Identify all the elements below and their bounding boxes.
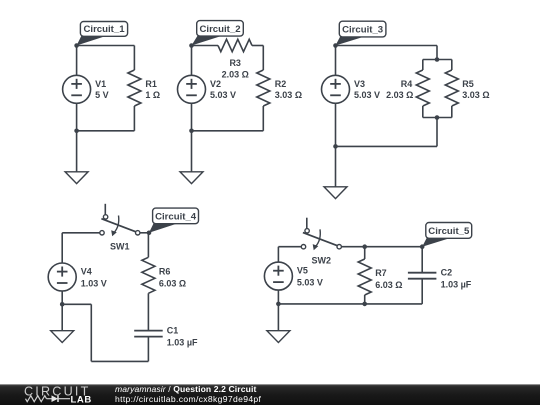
wire circuit3 V3 top stub xyxy=(335,46,337,76)
svg-text:1.03 V: 1.03 V xyxy=(81,279,107,289)
wire circuit5 bottom xyxy=(278,303,422,305)
wire circuit3 V3 bottom stub xyxy=(335,103,337,146)
wire circuit3 parallel top bar xyxy=(423,59,452,61)
resistor R3 xyxy=(218,39,252,51)
voltage source V3 xyxy=(322,75,350,103)
capacitor C1 xyxy=(134,330,163,332)
svg-text:Circuit_2: Circuit_2 xyxy=(199,24,240,35)
resistor R7 xyxy=(358,259,371,295)
svg-text:V5: V5 xyxy=(297,266,308,276)
node junction circuit3 parallel bottom xyxy=(435,115,440,120)
wire circuit3 R5 bottom stub xyxy=(451,106,453,118)
svg-text:R7: R7 xyxy=(375,268,387,278)
resistor R5 xyxy=(445,70,458,106)
svg-text:SW1: SW1 xyxy=(110,242,130,252)
resistor R2 xyxy=(257,70,270,106)
node junction circuit3 top-left xyxy=(333,43,338,48)
svg-text:2.03 Ω: 2.03 Ω xyxy=(386,90,413,100)
node junction circuit5 R7 bottom xyxy=(362,302,367,307)
svg-text:Circuit_4: Circuit_4 xyxy=(155,212,197,223)
node junction circuit5 R7 top xyxy=(362,244,367,249)
svg-text:5.03 V: 5.03 V xyxy=(354,90,380,100)
svg-text:maryamnasir / Question 2.2 Cir: maryamnasir / Question 2.2 Circuit xyxy=(115,384,256,394)
wire circuit1 bottom xyxy=(77,130,135,132)
svg-text:Circuit_3: Circuit_3 xyxy=(342,25,383,36)
wire circuit4 R6 to C1 xyxy=(147,293,149,330)
voltage source V5 xyxy=(264,262,292,290)
wire circuit5 C2 top stub xyxy=(421,247,423,273)
switch SW1 lever xyxy=(101,219,135,232)
voltage source V2 xyxy=(178,75,206,103)
switch SW1 actuation arrow xyxy=(114,216,119,234)
node label Circuit_1 xyxy=(77,35,110,46)
svg-text:V2: V2 xyxy=(210,79,221,89)
node junction circuit4 switch node xyxy=(147,231,152,236)
resistor R6 xyxy=(142,257,155,293)
node junction circuit4 below V4 xyxy=(60,302,65,307)
svg-text:6.03 Ω: 6.03 Ω xyxy=(375,280,402,290)
switch SW2 terminal stub xyxy=(306,218,308,229)
svg-text:1 Ω: 1 Ω xyxy=(145,90,160,100)
svg-text:5.03 V: 5.03 V xyxy=(210,90,236,100)
node junction circuit5 below V5 xyxy=(276,302,281,307)
capacitor C2 xyxy=(408,272,437,274)
wire circuit4 switch to left corner xyxy=(62,232,100,234)
wire circuit2 top-left to R3 xyxy=(192,45,219,47)
svg-text:3.03 Ω: 3.03 Ω xyxy=(462,90,489,100)
svg-text:5.03 V: 5.03 V xyxy=(297,278,323,288)
wire circuit3 top xyxy=(336,45,438,47)
svg-text:R1: R1 xyxy=(145,79,157,89)
ground circuit2 xyxy=(191,131,193,172)
wire circuit5 R7 top stub xyxy=(364,247,366,259)
wire circuit5 V5 bottom stub xyxy=(277,290,279,304)
CircuitLab logo resistor-diode glyph xyxy=(26,396,47,402)
svg-text:1.03 µF: 1.03 µF xyxy=(441,279,472,289)
wire circuit2 V2 top stub xyxy=(191,46,193,76)
node label Circuit_3 xyxy=(336,35,369,45)
svg-text:R6: R6 xyxy=(159,267,171,277)
switch SW2 throw terminal xyxy=(305,229,309,233)
node junction circuit1 bottom-left xyxy=(74,129,79,134)
wire circuit2 bottom xyxy=(192,130,264,132)
switch SW1 right terminal xyxy=(136,231,140,235)
svg-text:V1: V1 xyxy=(95,79,106,89)
wire circuit3 bottom drop xyxy=(436,118,438,147)
ground circuit3 xyxy=(335,146,337,186)
node junction circuit2 bottom-left xyxy=(189,129,194,134)
wire circuit1 top xyxy=(77,45,135,47)
wire circuit3 R4 bottom stub xyxy=(422,106,424,118)
svg-text:C2: C2 xyxy=(441,268,453,278)
svg-text:5 V: 5 V xyxy=(95,90,109,100)
switch SW1 throw terminal xyxy=(103,215,107,219)
wire circuit1 V1 bottom stub xyxy=(76,103,78,131)
node junction circuit3 bottom-left xyxy=(333,144,338,149)
switch SW1 terminal stub xyxy=(104,204,106,215)
wire circuit5 V5 top stub xyxy=(277,247,279,262)
node junction circuit3 parallel top xyxy=(435,57,440,62)
wire circuit3 parallel bottom bar xyxy=(423,117,452,119)
svg-text:V4: V4 xyxy=(81,267,92,277)
wire circuit4 bottom horizontal xyxy=(91,360,148,362)
wire circuit2 R2 bottom stub xyxy=(262,106,264,131)
wire circuit3 junction drop xyxy=(436,46,438,60)
node junction circuit1 top-left xyxy=(74,43,79,48)
svg-text:R2: R2 xyxy=(275,79,287,89)
svg-text:3.03 Ω: 3.03 Ω xyxy=(275,90,302,100)
svg-text:V3: V3 xyxy=(354,79,365,89)
switch SW2 right terminal xyxy=(337,245,341,249)
node label Circuit_5 xyxy=(422,237,454,247)
switch SW2 actuation arrow xyxy=(315,229,320,247)
wire circuit4 C1 bottom stub xyxy=(147,337,149,362)
svg-text:Circuit_1: Circuit_1 xyxy=(83,24,125,35)
node label Circuit_4 xyxy=(149,222,181,233)
svg-text:R3: R3 xyxy=(229,58,241,68)
resistor R4 xyxy=(416,70,429,106)
ground circuit4 xyxy=(61,304,63,330)
wire circuit4 R6 top stub xyxy=(147,233,149,257)
voltage source V4 xyxy=(48,263,76,291)
svg-text:1.03 µF: 1.03 µF xyxy=(167,337,198,347)
wire circuit2 R2 top stub xyxy=(262,46,264,71)
ground circuit5 xyxy=(277,304,279,331)
resistor R1 xyxy=(128,70,141,106)
svg-text:2.03 Ω: 2.03 Ω xyxy=(222,69,249,79)
svg-text:R4: R4 xyxy=(401,79,413,89)
wire circuit2 V2 bottom stub xyxy=(191,103,193,131)
wire circuit2 R3 to corner xyxy=(252,45,263,47)
wire circuit4 node to riser xyxy=(62,303,91,305)
switch SW1 left terminal xyxy=(100,231,104,235)
node junction circuit5 C2 top xyxy=(420,244,425,249)
wire circuit3 bottom xyxy=(336,145,438,147)
svg-text:Circuit_5: Circuit_5 xyxy=(428,226,470,237)
svg-text:R5: R5 xyxy=(462,79,474,89)
svg-text:http://circuitlab.com/cx8kg97d: http://circuitlab.com/cx8kg97de94pf xyxy=(115,394,262,404)
wire circuit5 R7 bottom stub xyxy=(364,295,366,304)
wire circuit5 switch to C2 node xyxy=(340,246,423,248)
svg-text:SW2: SW2 xyxy=(312,255,332,265)
wire circuit1 V1 top stub xyxy=(76,46,78,76)
wire circuit5 C2 bottom stub xyxy=(421,279,423,304)
svg-text:C1: C1 xyxy=(167,326,179,336)
switch SW2 left terminal xyxy=(301,245,305,249)
wire circuit4 V4 top stub xyxy=(61,233,63,263)
node label Circuit_2 xyxy=(192,35,226,46)
wire circuit3 R4 top stub xyxy=(422,60,424,71)
wire circuit4 V4 bottom stub xyxy=(61,291,63,304)
wire circuit4 return riser xyxy=(90,304,92,361)
node junction circuit2 top-left xyxy=(189,43,194,48)
wire circuit5 corner to switch xyxy=(278,246,301,248)
ground circuit1 xyxy=(76,131,78,172)
wire circuit4 switch to node xyxy=(138,232,149,234)
svg-text:6.03 Ω: 6.03 Ω xyxy=(159,278,186,288)
svg-text:LAB: LAB xyxy=(71,394,92,405)
wire circuit1 R1 top stub xyxy=(133,46,135,71)
wire circuit3 R5 top stub xyxy=(451,60,453,71)
switch SW2 lever xyxy=(303,233,338,246)
voltage source V1 xyxy=(63,75,91,103)
wire circuit1 R1 bottom stub xyxy=(133,106,135,131)
